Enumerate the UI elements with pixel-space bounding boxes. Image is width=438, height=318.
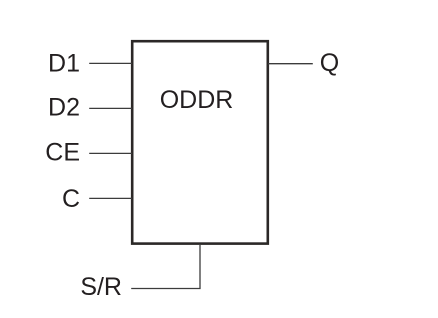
svg-text:CE: CE — [45, 139, 80, 167]
svg-text:D2: D2 — [48, 93, 80, 121]
svg-text:C: C — [62, 185, 80, 213]
svg-text:S/R: S/R — [80, 273, 122, 301]
svg-text:ODDR: ODDR — [160, 86, 234, 114]
svg-text:D1: D1 — [48, 50, 80, 78]
svg-text:Q: Q — [320, 49, 339, 77]
